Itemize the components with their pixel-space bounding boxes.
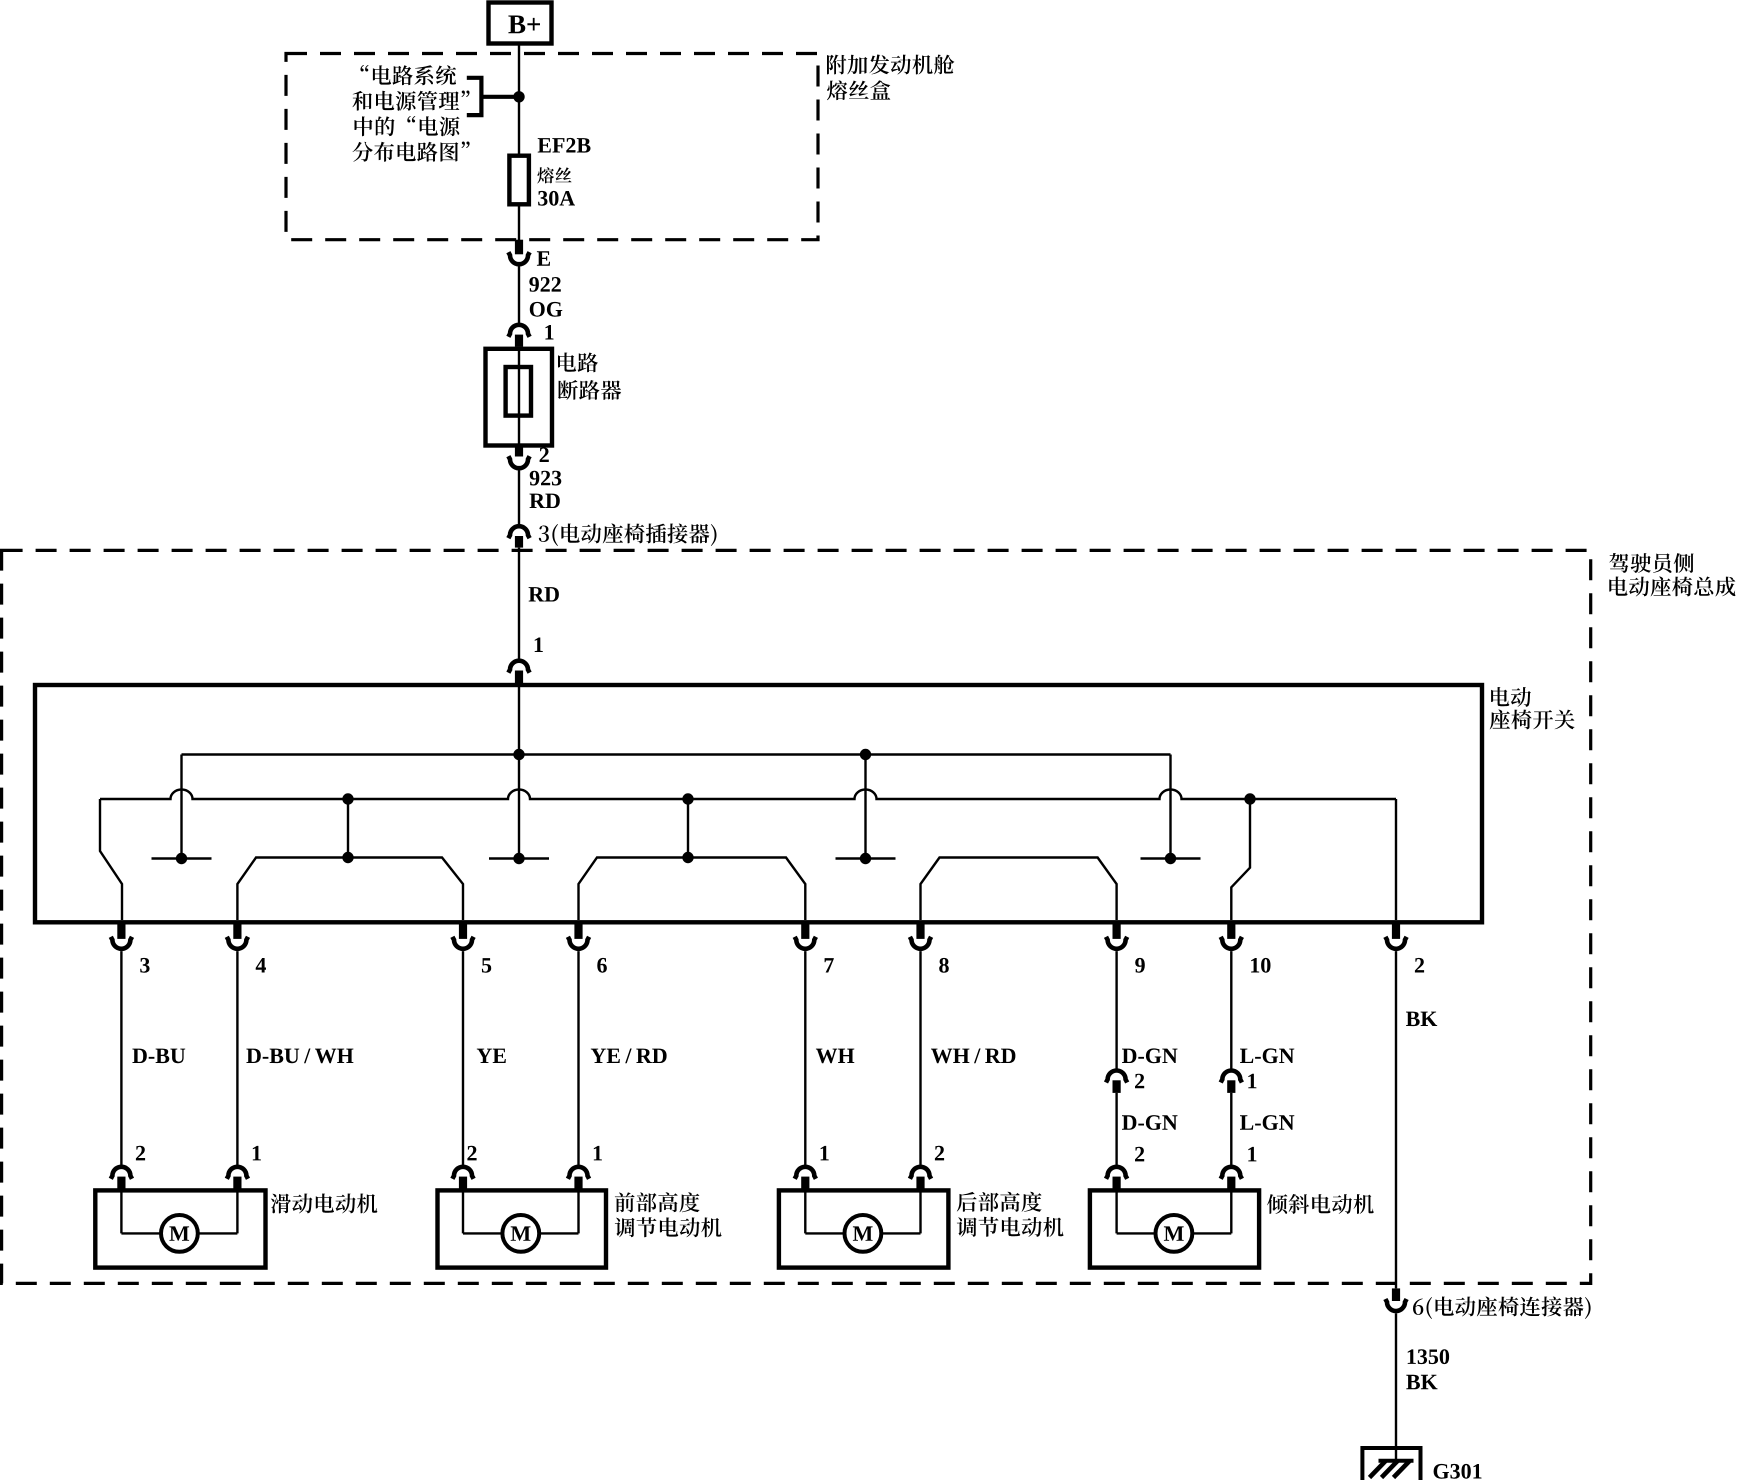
pin 9 wire with inline connector [1115, 951, 1117, 1069]
rocker pins 6-7 [579, 858, 806, 921]
battery feed B+ [489, 3, 552, 44]
ground wire from pin 2 [1395, 951, 1397, 1288]
motor M2 box [438, 1190, 607, 1267]
bus A [182, 753, 1171, 755]
label motor M3 [957, 1192, 1042, 1212]
motor pin labels [136, 1146, 145, 1161]
bus B dots [342, 793, 353, 804]
motor feed wires [120, 951, 122, 1165]
rocker pins 4-5 [237, 858, 463, 921]
power seat switch box [35, 685, 1482, 922]
drop to pin 2 [1395, 799, 1397, 920]
label motor M2 [615, 1192, 700, 1212]
label seat switch [1491, 687, 1531, 707]
wire 1350 BK [1395, 1313, 1397, 1460]
connector pin 2 breaker [515, 446, 523, 457]
connector pin E [515, 240, 523, 255]
wire fuse to E [518, 204, 520, 240]
motor input connectors [111, 1167, 132, 1179]
bus A drops [180, 755, 182, 859]
switch feed wire [518, 685, 520, 859]
label fuse block [827, 55, 954, 75]
label G301 [1434, 1464, 1482, 1479]
label motor M4 [1267, 1194, 1374, 1214]
circuit breaker [486, 349, 553, 446]
rocker pins 8-9 [921, 858, 1117, 921]
label seat assembly [1609, 553, 1693, 573]
splice node [513, 91, 524, 102]
pin 10 wire with inline connector [1230, 951, 1232, 1069]
connector pin 1 switch [508, 661, 529, 673]
wire into assembly [518, 548, 520, 661]
connector 6 seat connector [1392, 1288, 1400, 1301]
label EF2B 30A [538, 138, 591, 153]
switch pin connectors [117, 925, 125, 939]
label motor M1 [271, 1194, 378, 1214]
connector pin 1 breaker [508, 325, 529, 337]
underhood fuse block dashed box [286, 54, 818, 240]
blade pin 3 [100, 799, 122, 920]
motor M4 box [1090, 1190, 1259, 1267]
motor M1 box [95, 1190, 265, 1267]
blade pin 10 [1231, 799, 1250, 920]
label circuit breaker [558, 353, 598, 373]
wire colour labels [132, 1049, 185, 1064]
chassis ground symbol [1379, 1459, 1414, 1463]
stationary contacts [152, 857, 212, 859]
wire B+ down [518, 44, 520, 156]
wire label RD [529, 587, 559, 601]
wire 923 RD [518, 470, 520, 526]
inline connector labels [1135, 1074, 1144, 1089]
bus A dots [513, 749, 524, 760]
motor M3 box [779, 1190, 949, 1267]
reference bracket [467, 78, 482, 115]
label circuit reference [361, 65, 457, 85]
fuse EF2B [509, 156, 529, 205]
driver side power seat assembly box [2, 550, 1591, 1283]
wire 922 OG [518, 266, 520, 324]
bus B with hops [100, 790, 1396, 800]
connector 3 seat harness [508, 526, 529, 538]
ground shield G301 [1362, 1448, 1420, 1480]
